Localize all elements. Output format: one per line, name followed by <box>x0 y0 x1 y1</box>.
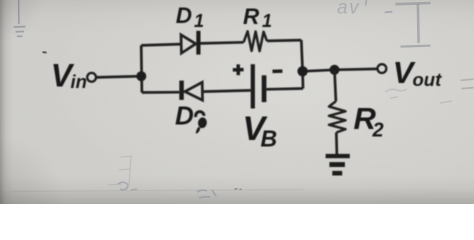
wire V_in lead <box>96 76 142 77</box>
diode D2 <box>179 81 202 101</box>
wire top branch middle <box>201 42 244 43</box>
faint bleed-through vertical line top-left <box>18 0 20 24</box>
node B junction dot <box>297 66 307 76</box>
diode D1 <box>181 31 201 55</box>
faint equals marks right edge <box>461 79 474 88</box>
faint blue scribble bottom-centre-left <box>118 182 137 190</box>
wire R2 stem <box>335 70 336 102</box>
paper grain <box>0 0 1 1</box>
minus sign <box>273 69 283 73</box>
terminal V_in circle <box>87 73 96 82</box>
wire battery right lead <box>266 87 303 91</box>
wire ground stem <box>335 133 338 156</box>
faint handwriting marks <box>366 0 367 6</box>
wire output <box>303 69 378 71</box>
tiny specks <box>235 188 242 191</box>
faint bleed-through box bottom-centre <box>108 156 132 186</box>
node A junction dot <box>136 71 146 81</box>
svg-text:av: av <box>337 0 360 19</box>
wire top branch right <box>267 39 301 43</box>
label D2 <box>175 100 208 133</box>
label D1 <box>176 3 204 31</box>
label V_out <box>393 55 442 90</box>
ground <box>326 154 350 176</box>
label V_in <box>51 58 87 94</box>
wire left rail <box>140 45 143 92</box>
wire bottom branch left <box>142 91 179 94</box>
faint bleed-through ground marks top-left <box>14 27 26 37</box>
faint horizontal page crease <box>10 190 305 192</box>
plus sign <box>233 64 244 75</box>
resistor R2 <box>329 101 346 132</box>
wire jog to battery <box>301 71 304 88</box>
faint blue scribble bottom-centre <box>197 190 216 198</box>
faint I-beam symbol <box>396 3 431 47</box>
battery V_B <box>251 64 267 108</box>
wire right rail <box>301 40 302 71</box>
resistor R1 <box>244 31 267 51</box>
faint scribble under V_out <box>385 89 452 103</box>
node C junction dot <box>330 65 340 75</box>
label R2 <box>354 101 384 142</box>
label R1 <box>243 4 272 31</box>
wire battery left lead <box>202 90 250 91</box>
label V_B <box>243 110 278 151</box>
terminal V_out circle <box>378 64 387 73</box>
dark speck dash <box>43 51 47 53</box>
wire top branch left <box>141 44 181 45</box>
